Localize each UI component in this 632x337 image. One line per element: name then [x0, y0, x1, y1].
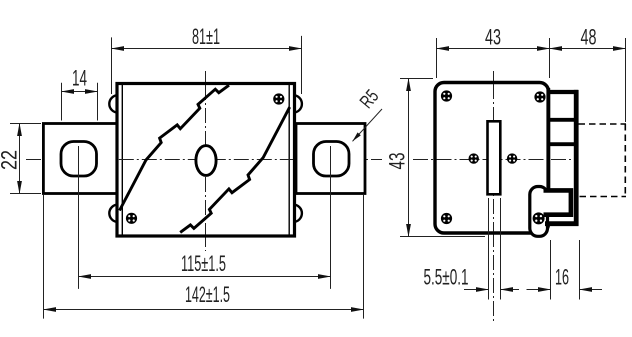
svg-text:16: 16	[555, 265, 569, 290]
hook rolled bars	[544, 190, 571, 214]
blade outer vertical	[574, 90, 579, 226]
stepped blade: divider 1	[549, 118, 577, 122]
stepped blade: divider 2	[549, 142, 577, 146]
screw TL	[441, 90, 452, 101]
fuse element zigzag upper line	[120, 85, 230, 210]
hidden blade dashed outline bottom	[580, 196, 627, 198]
ear top-left	[109, 95, 118, 112]
left terminal	[43, 124, 117, 194]
svg-text:R5: R5	[356, 86, 383, 113]
stepped blade: top bar	[547, 90, 578, 94]
hook screw	[533, 212, 545, 224]
hidden blade dashed outline right	[624, 124, 626, 197]
svg-text:22: 22	[0, 150, 22, 170]
vertical centerline inside body (redraw over white fill)	[205, 85, 207, 235]
dim 115±1.5	[79, 146, 331, 289]
dim 81±1	[112, 24, 302, 94]
fuse element zigzag lower line	[180, 107, 290, 232]
blade inner vertical (body right edge reinforcement)	[546, 88, 550, 192]
body inner flange line left	[121, 85, 123, 235]
svg-text:5.5±0.1: 5.5±0.1	[424, 265, 469, 290]
svg-text:142±1.5: 142±1.5	[185, 282, 230, 307]
vertical centerline	[205, 71, 207, 251]
screw bottom-left	[126, 213, 137, 224]
left terminal slot hole	[61, 142, 97, 177]
dim 22	[0, 124, 41, 194]
body inner flange line right	[288, 85, 290, 235]
dim 43 top	[437, 25, 550, 79]
leader R5	[353, 86, 384, 141]
svg-text:48: 48	[581, 25, 597, 50]
right terminal	[296, 124, 365, 194]
dim 43 left vertical	[385, 79, 486, 237]
ear bottom-right	[293, 205, 302, 222]
screw mid-left	[469, 153, 479, 163]
dim 5.5±0.1	[424, 198, 520, 300]
centerlines redrawn inside body	[493, 84, 495, 232]
center hole ellipse	[196, 146, 216, 176]
hook lobe	[530, 187, 548, 237]
horizontal centerline right view	[413, 159, 574, 161]
ear top-right	[293, 95, 302, 112]
right terminal slot hole	[314, 142, 350, 177]
ear bottom-left	[109, 205, 118, 222]
whiteout under hook	[545, 217, 551, 222]
dim 16	[527, 240, 603, 300]
svg-text:14: 14	[72, 66, 87, 91]
svg-text:43: 43	[385, 153, 410, 170]
screw mid-right	[507, 153, 517, 163]
dim 14	[62, 66, 98, 121]
hook bottom bar	[545, 221, 579, 226]
horizontal centerline inside body	[119, 159, 293, 161]
vertical centerline right view	[493, 71, 495, 323]
hidden blade dashed outline top	[579, 123, 627, 125]
screw TR	[534, 91, 545, 102]
screw BL	[441, 213, 452, 224]
svg-text:81±1: 81±1	[192, 24, 220, 49]
svg-text:43: 43	[485, 25, 501, 50]
dim 142±1.5	[44, 195, 364, 319]
screw top-right	[273, 93, 284, 104]
body outline	[117, 84, 295, 237]
horizontal centerline	[26, 159, 382, 161]
body rounded square	[435, 83, 549, 234]
middle slot	[488, 121, 501, 194]
svg-text:115±1.5: 115±1.5	[181, 251, 226, 276]
dim 48	[550, 25, 626, 123]
